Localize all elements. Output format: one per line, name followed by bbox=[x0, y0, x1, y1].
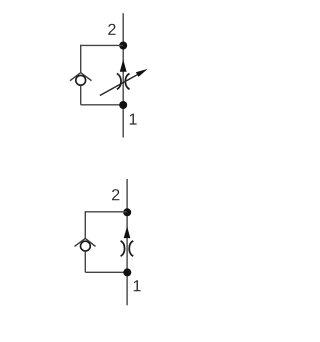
node 2 (top symbol) bbox=[119, 42, 127, 50]
adjustment arrow head (top symbol) bbox=[136, 69, 148, 77]
wire top horizontal branch (bottom symbol) bbox=[85, 211, 127, 213]
wire bottom horizontal branch (bottom symbol) bbox=[85, 271, 127, 273]
node 1 (bottom symbol) bbox=[123, 268, 131, 276]
port label 1 (bottom symbol) bbox=[134, 280, 141, 291]
wire top horizontal branch (top symbol) bbox=[81, 44, 124, 46]
throttle arc right (bottom symbol) bbox=[129, 241, 133, 256]
check valve ball (bottom symbol) bbox=[81, 241, 91, 251]
throttle arc left (top symbol) bbox=[117, 74, 121, 90]
port label 2 (top symbol) bbox=[108, 24, 115, 35]
throttle arc right (top symbol) bbox=[125, 74, 129, 90]
port label 1 (top symbol) bbox=[130, 114, 137, 125]
wire bottom horizontal branch (top symbol) bbox=[81, 104, 124, 106]
flow direction arrow (bottom symbol) bbox=[124, 226, 131, 238]
wire left vertical lower (top symbol) bbox=[80, 86, 82, 105]
wire left vertical lower (bottom symbol) bbox=[84, 251, 86, 272]
check valve ball (top symbol) bbox=[76, 75, 86, 85]
wire left vertical upper (top symbol) bbox=[80, 45, 82, 73]
node 2 (bottom symbol) bbox=[123, 208, 131, 216]
wire left vertical upper (bottom symbol) bbox=[84, 211, 86, 239]
throttle arc left (bottom symbol) bbox=[121, 241, 125, 256]
wire main vertical (top symbol) bbox=[122, 13, 124, 137]
wire main vertical (bottom symbol) bbox=[126, 179, 128, 305]
check valve seat (bottom symbol) bbox=[75, 238, 96, 246]
adjustment arrow shaft (top symbol) bbox=[100, 74, 138, 95]
node 1 (top symbol) bbox=[119, 101, 127, 109]
flow direction arrow (top symbol) bbox=[120, 59, 127, 71]
port label 2 (bottom symbol) bbox=[112, 189, 119, 200]
check valve seat (top symbol) bbox=[70, 73, 92, 81]
